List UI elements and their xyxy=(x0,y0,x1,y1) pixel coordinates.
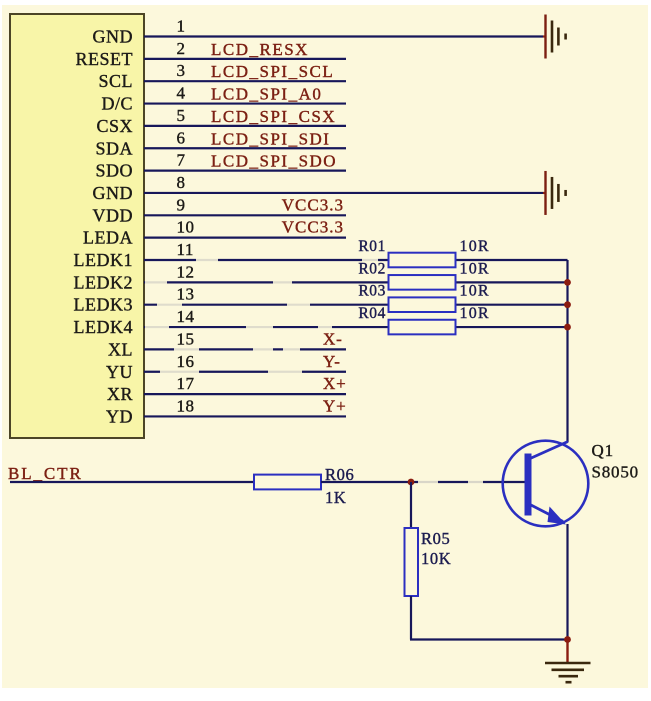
net label LCD_SPI_SCL xyxy=(211,62,334,81)
resistor R06 xyxy=(254,475,321,490)
pin name XR (pin 17) xyxy=(107,384,133,404)
svg-text:6: 6 xyxy=(177,128,186,147)
pin name LEDK3 (pin 13) xyxy=(74,295,134,315)
svg-text:S8050: S8050 xyxy=(592,463,639,482)
pin number 13 xyxy=(177,285,195,304)
pin number 16 xyxy=(177,352,195,371)
svg-text:BL_CTR: BL_CTR xyxy=(8,464,83,483)
resistor R02 xyxy=(389,275,456,290)
pin name GND (pin 8) xyxy=(93,183,134,203)
pin name D/C (pin 4) xyxy=(101,94,133,114)
wire pin 6 xyxy=(144,147,346,149)
net label Y- xyxy=(323,352,341,371)
junction at R02 row xyxy=(564,279,571,286)
pin name RESET (pin 2) xyxy=(75,49,133,69)
pin number 7 xyxy=(177,151,186,170)
svg-text:18: 18 xyxy=(177,396,195,415)
wire pin 17 xyxy=(144,393,346,395)
wire pin 14 xyxy=(144,325,568,329)
svg-text:SCL: SCL xyxy=(98,71,133,91)
value 1K xyxy=(325,488,346,507)
value S8050 xyxy=(592,463,639,482)
svg-text:9: 9 xyxy=(177,195,186,214)
svg-text:7: 7 xyxy=(177,151,186,170)
svg-text:10R: 10R xyxy=(460,260,490,277)
svg-text:4: 4 xyxy=(177,84,186,103)
wire junction down to R05 xyxy=(410,482,412,528)
wire pin 4 xyxy=(144,102,346,104)
value 10R xyxy=(460,305,490,322)
wire pin 2 xyxy=(144,58,346,60)
pin number 11 xyxy=(177,240,194,259)
pin name LEDK4 (pin 14) xyxy=(74,317,134,337)
svg-text:14: 14 xyxy=(177,307,195,326)
svg-text:10R: 10R xyxy=(460,305,490,322)
svg-text:LCD_SPI_SDO: LCD_SPI_SDO xyxy=(211,152,337,171)
svg-text:17: 17 xyxy=(177,374,195,393)
pin name LEDK1 (pin 11) xyxy=(74,250,134,270)
pin number 3 xyxy=(177,61,186,80)
label R05 xyxy=(421,529,450,548)
pin number 14 xyxy=(177,307,195,326)
pin number 12 xyxy=(177,262,195,281)
pin number 17 xyxy=(177,374,195,393)
svg-text:R03: R03 xyxy=(358,283,386,300)
net label LCD_SPI_A0 xyxy=(211,85,322,104)
pin number 5 xyxy=(177,106,186,125)
pin name SCL (pin 3) xyxy=(98,71,133,91)
wire vertical bus from R01 row to Q1 collector xyxy=(566,260,568,442)
junction gnd node xyxy=(564,636,571,643)
svg-text:LEDK4: LEDK4 xyxy=(74,317,134,337)
pin number 2 xyxy=(177,39,186,58)
svg-text:16: 16 xyxy=(177,352,195,371)
pin name SDO (pin 7) xyxy=(95,161,133,181)
wire pin 9 xyxy=(144,214,346,216)
wire Q1 emitter down to gnd node xyxy=(566,524,568,640)
value 10R xyxy=(460,283,490,300)
net label LCD_SPI_CSX xyxy=(211,107,336,126)
wire pin 18 xyxy=(144,415,346,417)
svg-text:GND: GND xyxy=(93,183,134,203)
value 10K xyxy=(421,549,451,568)
net label VCC3.3 xyxy=(282,195,344,214)
resistor R05 xyxy=(405,528,419,596)
svg-text:XR: XR xyxy=(107,384,133,404)
pin name LEDA (pin 10) xyxy=(83,228,133,248)
svg-text:3: 3 xyxy=(177,61,186,80)
svg-text:R05: R05 xyxy=(421,529,450,548)
wire pin 3 xyxy=(144,80,346,82)
svg-text:12: 12 xyxy=(177,262,195,281)
svg-text:R04: R04 xyxy=(358,305,386,322)
wire pin 16 xyxy=(144,370,346,374)
svg-text:10R: 10R xyxy=(460,283,490,300)
ground (power bar gnd, pointing right) xyxy=(543,171,566,215)
pin name GND (pin 1) xyxy=(93,27,134,47)
svg-text:VCC3.3: VCC3.3 xyxy=(282,195,344,214)
pin name YD (pin 18) xyxy=(106,406,133,426)
net label LCD_SPI_SDO xyxy=(211,152,337,171)
wire R06 to Q1 base xyxy=(321,480,526,484)
wire pin 5 xyxy=(144,125,346,127)
svg-text:8: 8 xyxy=(177,173,186,192)
wire pin 11 xyxy=(144,258,568,262)
svg-text:13: 13 xyxy=(177,285,195,304)
pin name LEDK2 (pin 12) xyxy=(74,272,134,292)
svg-text:LEDA: LEDA xyxy=(83,228,133,248)
net label VCC3.3 xyxy=(282,218,344,237)
net label LCD_SPI_SDI xyxy=(211,129,330,148)
value 10R xyxy=(460,260,490,277)
label R06 xyxy=(325,465,354,484)
label Q1 xyxy=(592,441,614,460)
label R04 xyxy=(358,305,386,322)
net label BL_CTR xyxy=(8,464,83,483)
svg-text:LEDK2: LEDK2 xyxy=(74,272,134,292)
svg-text:YU: YU xyxy=(106,362,133,382)
resistor R01 xyxy=(389,253,456,268)
svg-text:R01: R01 xyxy=(358,238,386,255)
junction at R03 row xyxy=(564,301,571,308)
svg-text:VDD: VDD xyxy=(93,205,134,225)
svg-text:Y+: Y+ xyxy=(323,396,346,415)
svg-text:LCD_RESX: LCD_RESX xyxy=(211,40,309,59)
ground (power bar gnd, pointing right) xyxy=(543,15,566,59)
svg-text:XL: XL xyxy=(108,339,133,359)
wire pin 7 xyxy=(144,170,346,172)
pin name YU (pin 16) xyxy=(106,362,133,382)
connector P1 LCD module body xyxy=(10,14,144,438)
wire pin 13 xyxy=(144,303,568,307)
wire pin 1 xyxy=(144,35,543,37)
svg-text:CSX: CSX xyxy=(96,116,133,136)
wire BL_CTR to R06 xyxy=(10,481,254,483)
svg-text:11: 11 xyxy=(177,240,194,259)
svg-text:GND: GND xyxy=(93,27,134,47)
resistor R03 xyxy=(389,297,456,312)
net label X+ xyxy=(323,374,346,393)
pin number 10 xyxy=(177,218,195,237)
svg-text:SDA: SDA xyxy=(95,138,133,158)
transistor Q1 S8050 (NPN) xyxy=(503,441,589,527)
svg-text:15: 15 xyxy=(177,329,195,348)
svg-text:LEDK1: LEDK1 xyxy=(74,250,134,270)
svg-text:X-: X- xyxy=(323,329,343,348)
svg-text:10: 10 xyxy=(177,218,195,237)
svg-text:VCC3.3: VCC3.3 xyxy=(282,218,344,237)
net label X- xyxy=(323,329,343,348)
pin number 15 xyxy=(177,329,195,348)
svg-text:D/C: D/C xyxy=(101,94,133,114)
svg-text:RESET: RESET xyxy=(75,49,133,69)
junction at R04 row xyxy=(564,324,571,331)
pin name XL (pin 15) xyxy=(108,339,133,359)
svg-text:5: 5 xyxy=(177,106,186,125)
wire pin 12 xyxy=(144,280,568,284)
pin name SDA (pin 6) xyxy=(95,138,133,158)
svg-text:LCD_SPI_A0: LCD_SPI_A0 xyxy=(211,85,322,104)
svg-text:SDO: SDO xyxy=(95,161,133,181)
pin name CSX (pin 5) xyxy=(96,116,133,136)
wire pin 10 xyxy=(144,237,346,239)
svg-text:Y-: Y- xyxy=(323,352,341,371)
ground (earth) at bottom xyxy=(545,641,591,682)
value 10R xyxy=(460,238,490,255)
net label Y+ xyxy=(323,396,346,415)
pin number 8 xyxy=(177,173,186,192)
svg-text:YD: YD xyxy=(106,406,133,426)
wire pin 15 xyxy=(144,347,346,351)
pin name VDD (pin 9) xyxy=(93,205,134,225)
label R01 xyxy=(358,238,386,255)
svg-text:R02: R02 xyxy=(358,260,386,277)
svg-text:1: 1 xyxy=(177,17,186,36)
resistor R04 xyxy=(389,320,456,335)
label R03 xyxy=(358,283,386,300)
svg-text:LCD_SPI_SCL: LCD_SPI_SCL xyxy=(211,62,334,81)
pin number 9 xyxy=(177,195,186,214)
svg-text:X+: X+ xyxy=(323,374,346,393)
svg-text:2: 2 xyxy=(177,39,186,58)
pin number 6 xyxy=(177,128,186,147)
junction R06/R05 node xyxy=(408,479,415,486)
pin number 18 xyxy=(177,396,195,415)
svg-text:LEDK3: LEDK3 xyxy=(74,295,134,315)
pin number 1 xyxy=(177,17,186,36)
pin number 4 xyxy=(177,84,186,103)
svg-text:10K: 10K xyxy=(421,549,451,568)
svg-text:10R: 10R xyxy=(460,238,490,255)
svg-text:LCD_SPI_SDI: LCD_SPI_SDI xyxy=(211,129,330,148)
wire pin 8 xyxy=(144,192,543,194)
wire R05 down to emitter rail xyxy=(410,596,568,640)
svg-text:Q1: Q1 xyxy=(592,441,614,460)
svg-text:LCD_SPI_CSX: LCD_SPI_CSX xyxy=(211,107,336,126)
net label LCD_RESX xyxy=(211,40,309,59)
svg-text:1K: 1K xyxy=(325,488,346,507)
label R02 xyxy=(358,260,386,277)
